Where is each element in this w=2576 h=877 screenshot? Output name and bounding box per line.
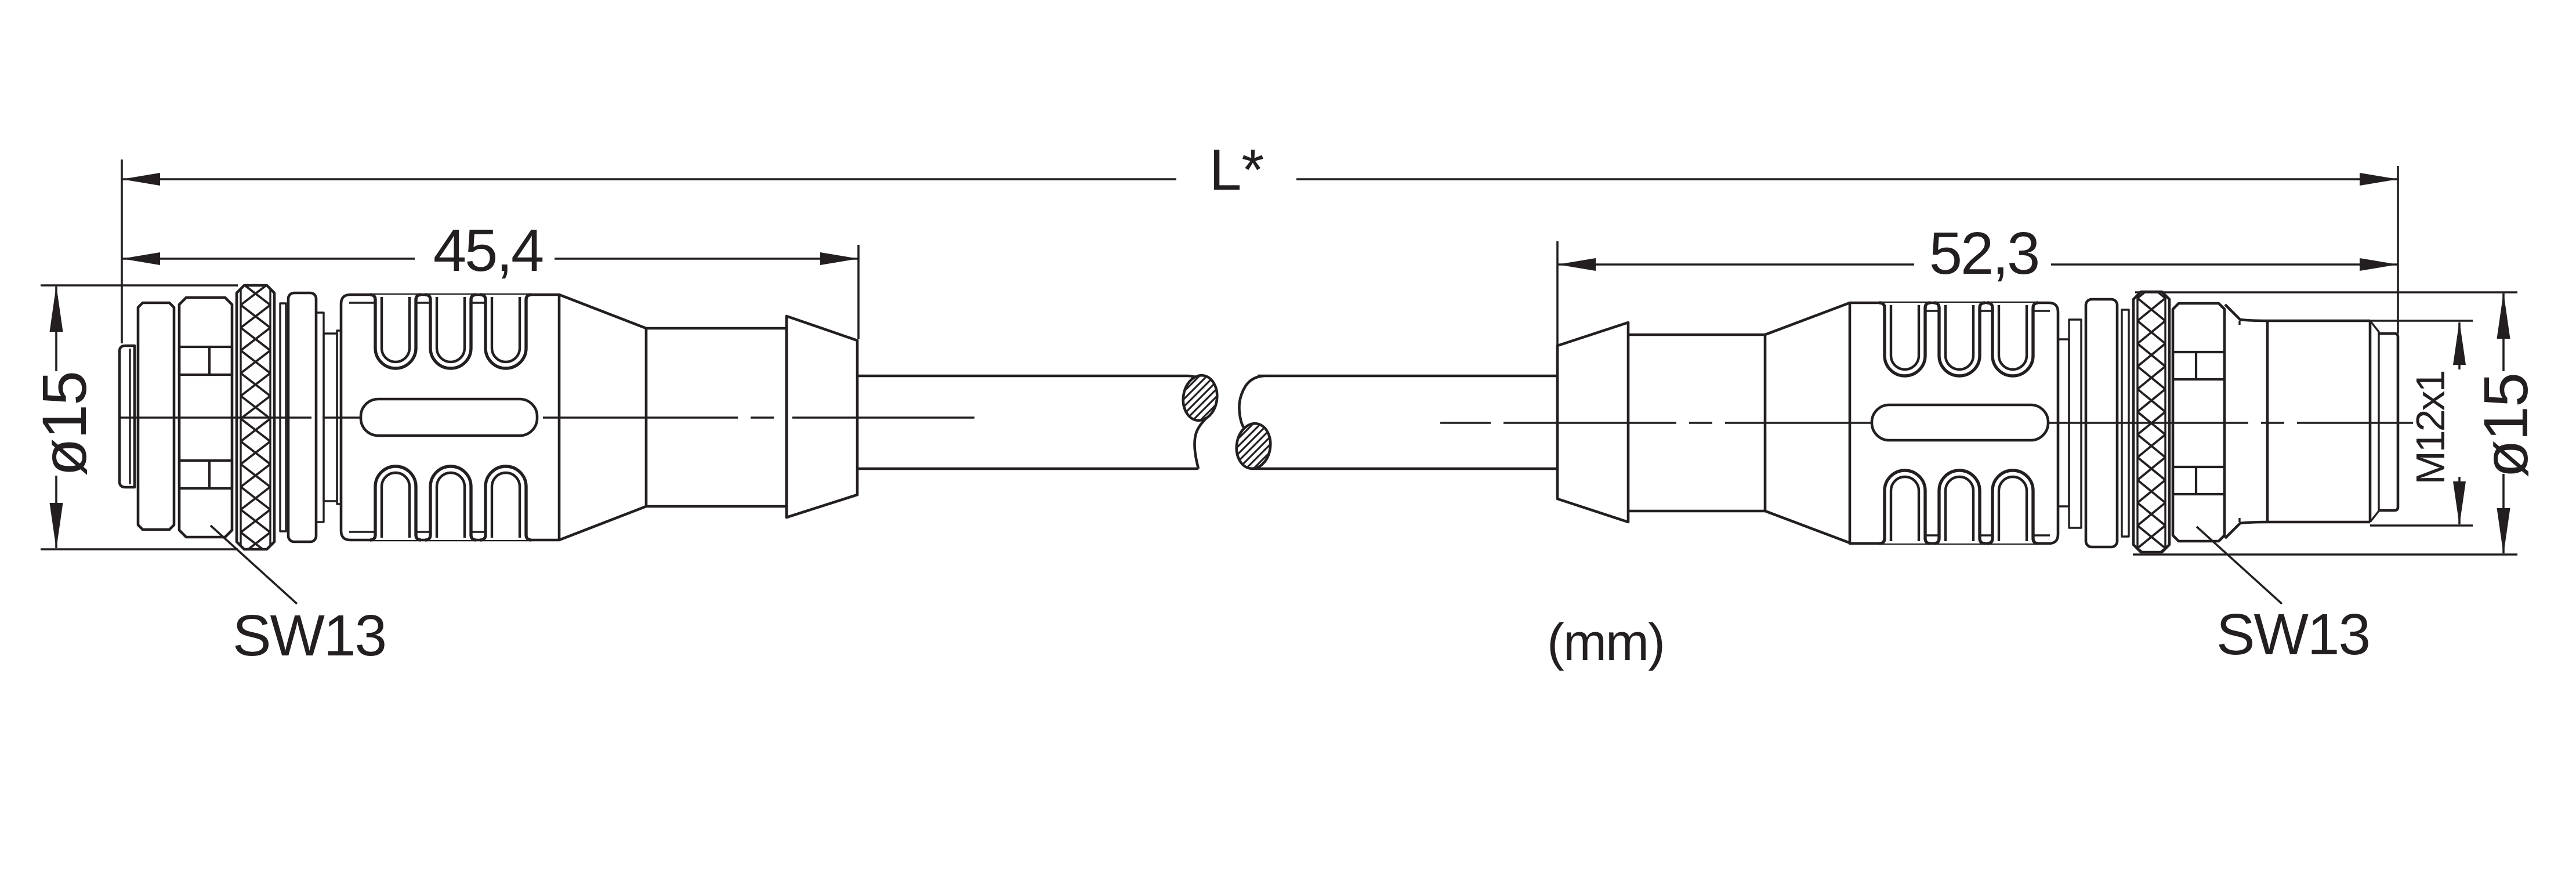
dimension L* extension line left	[121, 160, 123, 343]
leader line SW13 right	[2197, 527, 2282, 604]
left grip bottom groove 2	[425, 466, 476, 540]
right strain-relief taper cone	[1765, 303, 1850, 543]
left connector mating face cylinder	[119, 346, 135, 487]
svg-text:SW13: SW13	[2216, 602, 2370, 667]
dimension o15 left extension lines	[41, 284, 238, 287]
dimension o15 right extension lines	[2135, 291, 2517, 293]
cable right section	[1251, 376, 1557, 469]
centerline left assembly	[120, 416, 974, 418]
left connector lip	[337, 331, 341, 504]
left connector front ring	[138, 303, 174, 530]
svg-text:52,3: 52,3	[1929, 220, 2038, 287]
left connector washer	[280, 303, 286, 531]
dimension line M12x1	[2458, 322, 2461, 369]
dimension line 45,4	[122, 258, 415, 260]
left grip side slot	[361, 399, 537, 436]
dimension L* / 52,3 extension line right	[2397, 166, 2399, 334]
left connector knurled ring SW13	[237, 237, 274, 600]
right grip bottom groove 2	[1934, 470, 1985, 543]
cable right break cut	[1239, 376, 1265, 469]
centerline right assembly	[1440, 422, 2413, 423]
right connector thread tip	[2379, 334, 2398, 510]
cable left section	[857, 376, 1198, 469]
dimension line L*	[122, 178, 1176, 180]
left connector step 1	[316, 313, 324, 522]
right strain-relief bell	[1557, 322, 1628, 522]
left grip bottom groove 3	[480, 466, 531, 540]
right connector washer	[2122, 310, 2129, 537]
right connector step 1	[2069, 320, 2081, 528]
left strain-relief bell	[787, 316, 857, 517]
right grip side slot	[1872, 405, 2048, 440]
left grip top groove 2	[425, 295, 476, 368]
left strain-relief cylinder	[646, 316, 787, 517]
right connector knurled ring SW13	[2133, 230, 2169, 616]
right grip bottom groove 1	[1879, 470, 1930, 543]
svg-text:ø15: ø15	[2470, 374, 2541, 478]
svg-text:ø15: ø15	[29, 372, 99, 476]
right grip top groove 1	[1879, 303, 1930, 376]
cable left break blob	[1067, 340, 1334, 456]
left grip top groove 3	[480, 295, 531, 368]
dimension 52,3 extension line	[1556, 241, 1559, 470]
right grip top groove 2	[1934, 303, 1985, 376]
dimension line 52,3	[1557, 263, 1914, 266]
dimension M12x1 extension lines	[2370, 320, 2473, 322]
left connector coupling-nut hex ring	[179, 298, 232, 537]
svg-text:SW13: SW13	[233, 603, 386, 668]
left connector step 2	[324, 334, 337, 501]
dimension line o15 right	[2502, 293, 2505, 371]
cable left break cut	[1189, 376, 1215, 469]
leader line SW13 left	[211, 526, 297, 604]
dimension 45,4 extension line	[857, 245, 860, 339]
right connector hex body SW13	[2173, 303, 2224, 541]
cable right break blob	[1120, 388, 1387, 504]
right connector gasket ring	[2086, 299, 2117, 547]
left strain-relief taper cone	[559, 295, 646, 540]
left grip top groove 1	[370, 295, 421, 368]
left grip bottom groove 1	[370, 466, 421, 540]
right strain-relief cylinder	[1628, 335, 1765, 511]
dimension line o15 left	[55, 287, 57, 371]
right connector molded grip body	[1850, 303, 2058, 543]
right connector step 2	[2058, 339, 2069, 506]
right grip bottom groove 3	[1987, 470, 2038, 543]
svg-text:M12x1: M12x1	[2408, 371, 2453, 484]
svg-text:45,4: 45,4	[433, 217, 543, 284]
right connector thread M12x1	[2225, 305, 2379, 538]
svg-text:L*: L*	[1209, 137, 1265, 202]
left connector gasket ring	[288, 293, 316, 542]
right grip top groove 3	[1987, 303, 2038, 376]
left connector molded grip body	[341, 295, 559, 540]
svg-text:(mm): (mm)	[1547, 614, 1664, 672]
